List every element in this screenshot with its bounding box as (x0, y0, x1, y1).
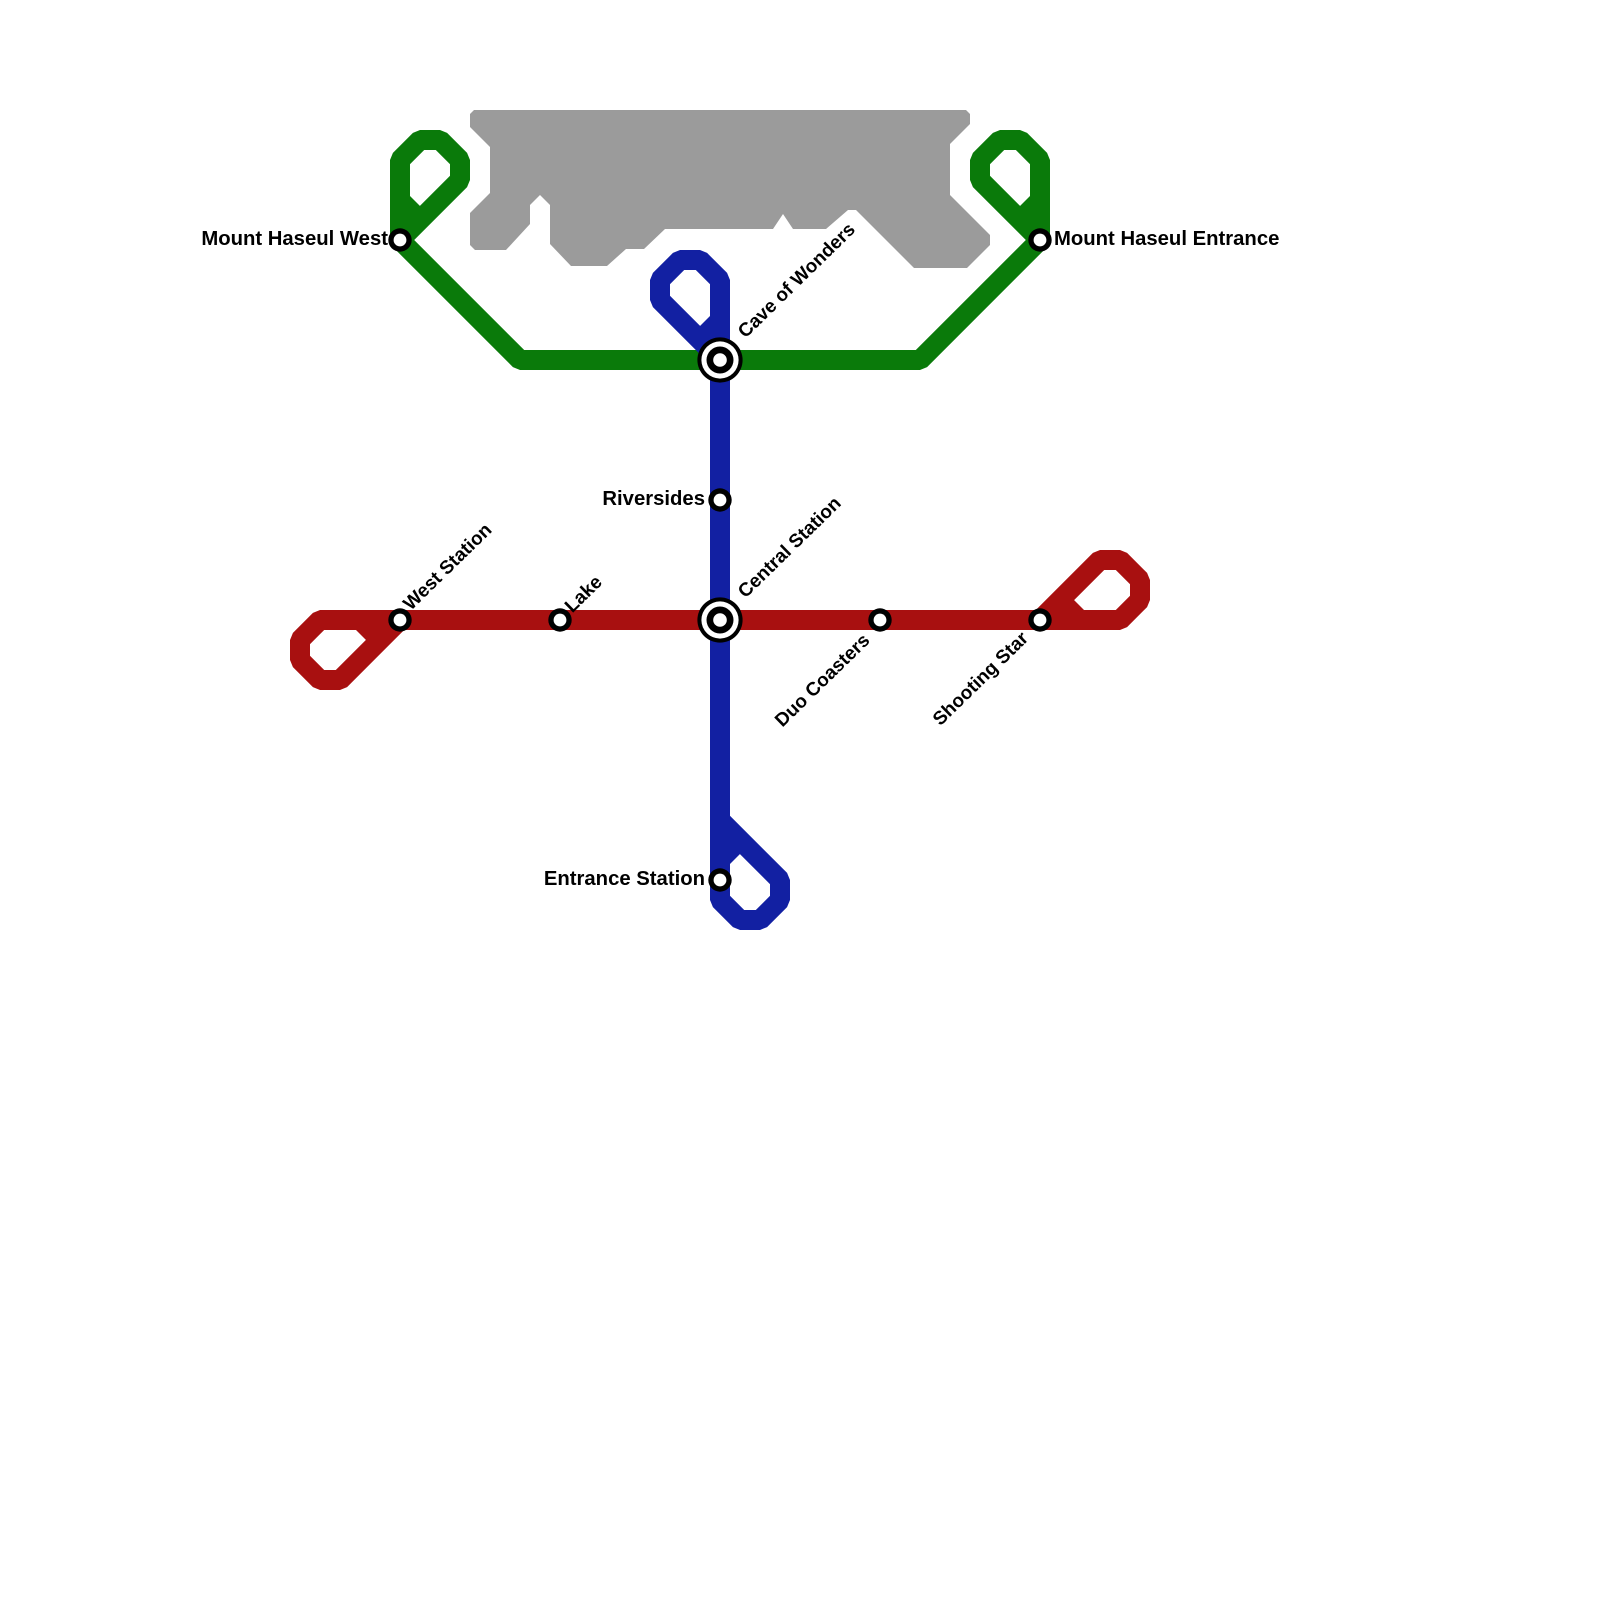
svg-text:Riversides: Riversides (602, 488, 705, 510)
svg-text:Entrance Station: Entrance Station (544, 868, 705, 890)
svg-text:Mount Haseul West: Mount Haseul West (201, 228, 388, 250)
svg-text:Mount Haseul Entrance: Mount Haseul Entrance (1054, 228, 1279, 250)
